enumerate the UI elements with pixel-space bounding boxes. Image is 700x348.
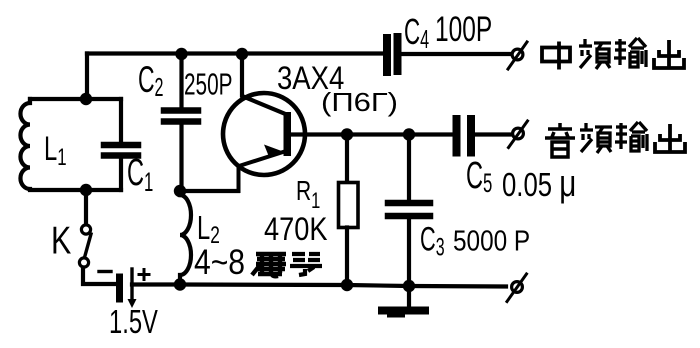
capacitor C1 — [104, 99, 138, 190]
node: tank bottom junction — [80, 184, 92, 196]
wire: emitter to junction — [180, 189, 238, 193]
svg-text:C1: C1 — [127, 150, 153, 197]
wire: top rail from corner to C4 — [87, 51, 382, 55]
svg-text:C3: C3 — [420, 221, 445, 262]
battery B 1.5V — [99, 269, 149, 308]
wire: tank top — [30, 97, 121, 101]
svg-text:250P: 250P — [184, 66, 232, 101]
node: tank top junction — [80, 93, 92, 105]
svg-text:C2: C2 — [138, 58, 164, 102]
capacitor C3 — [388, 135, 430, 287]
transistor Q1 3AX4 — [223, 54, 305, 191]
svg-text:470K: 470K — [264, 212, 328, 248]
node: C3 top junction — [403, 128, 415, 140]
svg-text:0.05 μ: 0.05 μ — [502, 163, 576, 205]
terminal: AF output — [509, 121, 528, 148]
inductor L1 — [20, 99, 30, 189]
wire: bottom rail — [180, 285, 506, 287]
label IF output (Chinese) — [542, 38, 684, 70]
node: base/R1 junction — [341, 128, 353, 140]
svg-text:5000 P: 5000 P — [453, 225, 530, 257]
wire: base lead to C5 — [291, 132, 452, 136]
svg-text:1.5V: 1.5V — [109, 304, 159, 341]
terminal: IF output — [508, 42, 527, 69]
node: collector top junction — [236, 48, 248, 60]
terminal: ground output — [507, 274, 527, 302]
wire: C5 to AF terminal — [473, 132, 511, 136]
svg-text:(П6Г): (П6Г) — [321, 87, 398, 117]
svg-text:C5: C5 — [466, 153, 492, 198]
node: L2 bottom junction — [174, 278, 186, 290]
label AF output (Chinese) — [545, 122, 685, 157]
wire: junction down to switch — [84, 190, 88, 224]
switch K — [79, 225, 91, 267]
svg-text:4~8: 4~8 — [194, 242, 245, 282]
wire: battery to L2 bottom — [132, 282, 180, 286]
svg-text:L1: L1 — [44, 130, 67, 171]
resistor R1 — [339, 135, 359, 286]
inductor L2 — [180, 191, 191, 285]
svg-text:C4: C4 — [404, 13, 429, 54]
node: C2 top junction — [175, 48, 187, 60]
wire: left drop from top rail to tank — [85, 54, 89, 98]
label L2 unit millihenry (Chinese) — [252, 252, 322, 276]
capacitor C4 — [387, 37, 398, 72]
capacitor C2 — [164, 54, 198, 191]
wire: switch to battery — [83, 268, 116, 285]
ground — [382, 286, 425, 316]
svg-text:R1: R1 — [296, 176, 320, 213]
node: C3 bottom junction — [403, 280, 415, 292]
svg-text:K: K — [51, 219, 71, 262]
capacitor C5 — [457, 119, 472, 153]
svg-text:100P: 100P — [435, 11, 492, 49]
node: R1 bottom junction — [341, 279, 353, 291]
node: emitter/C2/L2 junction — [174, 185, 186, 197]
wire: top rail from C4 to IF terminal — [401, 52, 509, 56]
wire: tank bottom — [30, 188, 121, 192]
